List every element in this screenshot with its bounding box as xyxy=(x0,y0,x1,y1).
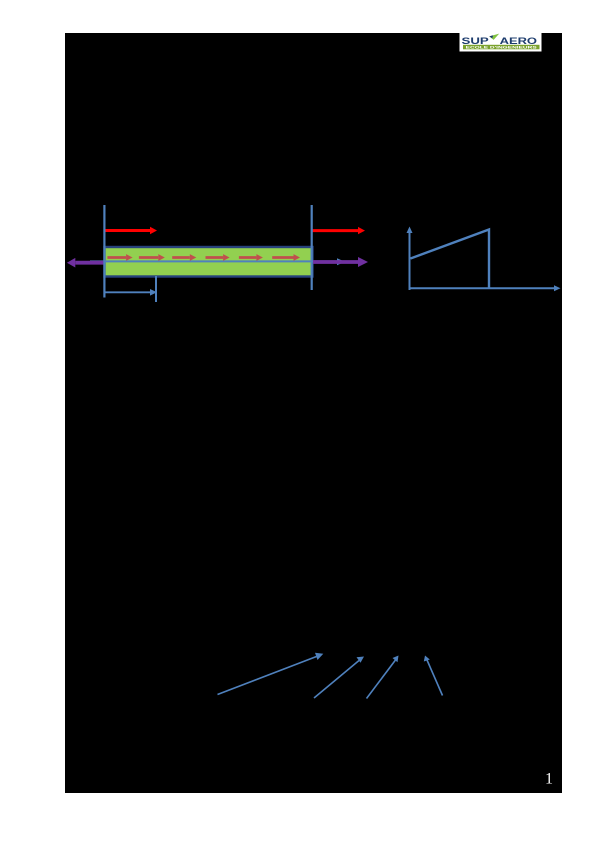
graph stress curve (ramp then drop) xyxy=(411,230,490,289)
left red force arrow xyxy=(105,227,158,234)
annotation arrow 3 xyxy=(367,656,399,699)
right purple reaction arrow (points right) xyxy=(313,257,368,267)
right section vertical line xyxy=(311,205,313,290)
svg-text:1: 1 xyxy=(545,771,553,788)
graph x-axis xyxy=(410,285,561,291)
annotation arrow 1 xyxy=(218,653,324,695)
rod (green bar with dark blue border) xyxy=(105,247,313,277)
rod center line arrowhead (peeking behind purple arrow) xyxy=(337,258,345,265)
dimension tick mark xyxy=(155,276,157,302)
left purple reaction arrow (points left) xyxy=(67,258,105,268)
graph y-axis xyxy=(407,227,413,291)
rod center line xyxy=(90,260,337,262)
SUPAERO logo green check xyxy=(489,34,499,40)
dimension arrow xyxy=(105,289,158,296)
annotation arrow 2 xyxy=(314,657,364,699)
right red force arrow xyxy=(312,227,365,234)
SUPAERO logo green banner xyxy=(463,45,540,50)
black slide background xyxy=(65,33,562,793)
annotation arrow 4 xyxy=(424,656,443,696)
left section vertical line xyxy=(103,205,105,298)
internal distributed-load arrows (dark red) xyxy=(107,254,300,261)
SUPAERO logo white box xyxy=(460,33,542,52)
svg-text:ECOLE D'INGENIEURS: ECOLE D'INGENIEURS xyxy=(466,46,538,50)
